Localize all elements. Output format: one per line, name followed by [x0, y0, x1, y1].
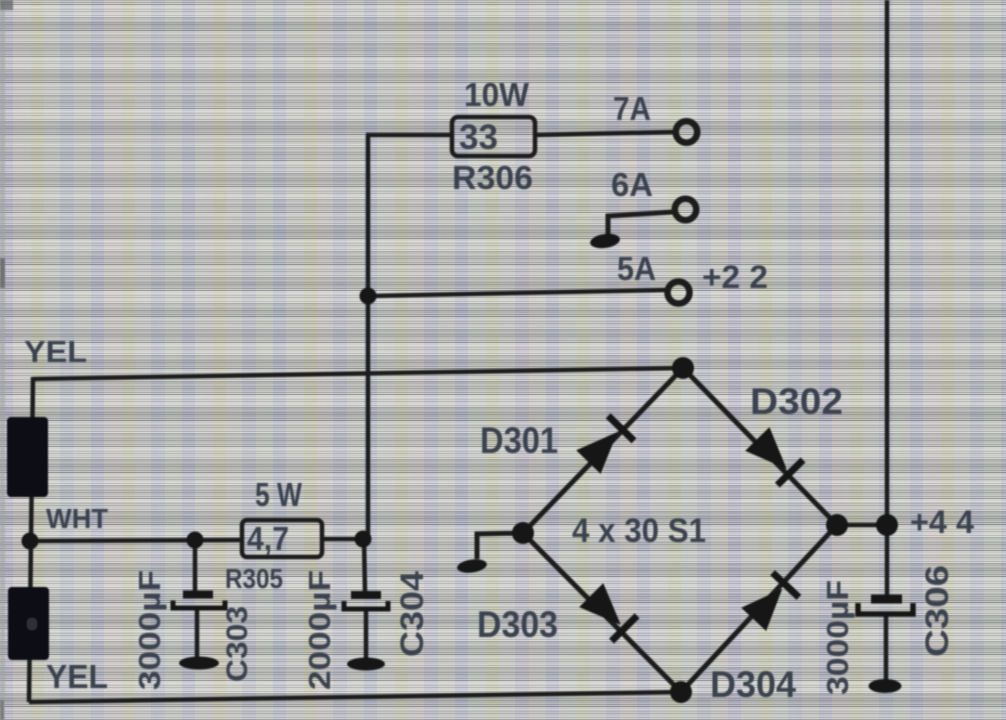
diode D301 — [575, 416, 634, 475]
capacitor C304 top plate — [351, 591, 381, 599]
capacitor C306 reference vertical — [919, 565, 955, 657]
svg-text:4,7: 4,7 — [247, 520, 289, 557]
bridge bottom node — [670, 681, 692, 703]
wire: bridge arm top-right — [683, 368, 837, 525]
svg-text:5 W: 5 W — [255, 476, 303, 513]
capacitor C306 top plate — [871, 595, 902, 604]
diode D303 — [578, 582, 637, 641]
wire: bridge right node to +44 rail junction — [837, 523, 887, 528]
svg-text:6A: 6A — [611, 166, 653, 203]
terminal 5A circle — [668, 282, 690, 304]
capacitor C306 cup plate — [858, 603, 913, 614]
junction node C304 tap — [355, 531, 372, 548]
terminal 6A circle — [675, 199, 697, 221]
chassis blob at bridge left node — [456, 557, 488, 574]
wire: left vertical bus — [29, 377, 33, 702]
svg-text:10W: 10W — [464, 76, 530, 113]
wire: bridge left node stub to chassis blob — [477, 533, 523, 559]
capacitor C304 reference vertical — [394, 571, 430, 657]
svg-text:2000µF: 2000µF — [302, 570, 337, 690]
capacitor C304 value 2000uF vertical — [302, 570, 337, 690]
bridge top node — [672, 357, 694, 379]
wire: bridge arm bottom-right — [681, 525, 837, 692]
wire: bottom horizontal from left bus to bridge bottom node — [29, 692, 681, 702]
svg-text:+4 4: +4 4 — [910, 504, 974, 540]
capacitor C303 reference vertical — [221, 606, 254, 682]
wire: R306 right lead to terminal 7A — [535, 132, 673, 135]
capacitor C303 value 3000uF vertical — [132, 570, 167, 690]
svg-text:3000µF: 3000µF — [820, 580, 855, 695]
svg-text:WHT: WHT — [46, 503, 108, 534]
svg-text:D302: D302 — [750, 381, 843, 422]
capacitor C303 top plate — [183, 591, 213, 599]
svg-text:D303: D303 — [477, 604, 558, 645]
svg-text:C306: C306 — [919, 565, 955, 657]
capacitor C303 bottom blob — [179, 657, 219, 670]
capacitor C304 cup plate — [344, 601, 388, 609]
svg-text:7A: 7A — [613, 90, 651, 127]
svg-text:D304: D304 — [710, 664, 796, 705]
wire: C303 branch upper — [193, 540, 198, 592]
wire: C303 branch lower — [195, 609, 200, 660]
svg-text:YEL: YEL — [46, 658, 108, 695]
svg-text:C303: C303 — [221, 606, 254, 682]
chassis blob at 6A stub — [589, 232, 621, 250]
wire: middle vertical rail x=368 (R306 left down to R305 junction) — [366, 135, 371, 541]
svg-text:YEL: YEL — [24, 334, 87, 369]
diode D304 — [741, 573, 799, 632]
svg-text:R306: R306 — [452, 159, 533, 196]
svg-text:4 x 30 S1: 4 x 30 S1 — [572, 512, 706, 550]
wire: R305 right lead to C304 junction — [322, 537, 363, 542]
svg-text:5A: 5A — [617, 250, 656, 287]
junction node WHT at left bus — [22, 533, 39, 550]
resistor R305 body — [242, 520, 322, 557]
junction node +44 on right rail — [876, 514, 898, 536]
bridge right node — [826, 514, 848, 536]
transformer winding lower black block — [8, 587, 49, 660]
svg-text:3000µF: 3000µF — [132, 570, 167, 690]
wire: 5A wire from rail junction to terminal 5A — [368, 290, 665, 296]
capacitor C306 bottom blob — [869, 679, 902, 693]
wire: top YEL horizontal from left corner to bridge top node — [33, 368, 683, 379]
svg-text:33: 33 — [459, 118, 498, 157]
svg-text:R305: R305 — [225, 563, 283, 594]
wire: right vertical rail x=887 from top edge to C306 — [885, 0, 890, 596]
wire: bridge arm left-top — [523, 368, 683, 533]
wire: C304 branch lower — [364, 610, 369, 660]
junction node on rail at 5A wire — [360, 288, 377, 305]
transformer winding upper black block — [7, 417, 48, 497]
svg-text:D301: D301 — [480, 420, 558, 461]
resistor R306 body — [452, 117, 535, 156]
capacitor C306 value 3000uF vertical — [820, 580, 855, 695]
wire: bridge arm left-bottom — [523, 533, 681, 692]
wire: WHT horizontal from left bus to R305 — [30, 540, 242, 541]
diode D302 — [744, 426, 803, 485]
wire: C304 branch upper — [364, 539, 365, 592]
bridge left node — [512, 522, 534, 544]
junction node C303 tap — [187, 532, 204, 549]
capacitor C304 bottom blob — [347, 658, 385, 671]
terminal 7A circle — [676, 121, 698, 143]
wire: R306 left lead — [366, 133, 452, 138]
svg-text:C304: C304 — [394, 571, 430, 657]
wire: C306 lower lead — [884, 614, 889, 682]
svg-text:+2 2: +2 2 — [702, 259, 768, 295]
wire: 6A stub to chassis blob — [608, 212, 673, 237]
capacitor C303 cup plate — [173, 601, 225, 609]
scan edge strip — [0, 0, 13, 720]
